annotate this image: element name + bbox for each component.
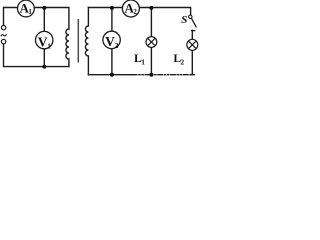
node: V1 top junction: [42, 6, 46, 10]
wire: secondary bottom dash-dot part: [133, 74, 196, 76]
wire: secondary top to right corner, down to switch: [88, 8, 190, 16]
ammeter A2: [122, 0, 139, 17]
svg-text:S: S: [181, 14, 187, 26]
svg-text:2: 2: [115, 41, 119, 50]
AC source terminal upper: [1, 25, 5, 29]
voltmeter V1: [36, 31, 53, 50]
node: V2 top junction: [110, 6, 114, 10]
wire: primary left side below terminals: [4, 44, 69, 67]
label L2: [173, 51, 184, 66]
lamp L1: [146, 37, 157, 48]
lamp L2: [187, 39, 198, 50]
wire: primary top, left corner to ammeter A1: [4, 8, 69, 30]
transformer primary winding P: [66, 29, 69, 67]
wire: secondary bottom solid part: [88, 74, 133, 76]
svg-text:1: 1: [141, 57, 145, 66]
wire: V1 branch vertical: [43, 8, 45, 67]
background: [0, 0, 200, 80]
switch S fixed contact: [191, 30, 195, 32]
svg-text:1: 1: [47, 41, 51, 50]
svg-text:2: 2: [180, 58, 184, 67]
svg-text:2: 2: [133, 8, 137, 16]
AC tilde symbol: [1, 34, 7, 36]
transformer secondary winding S: [85, 8, 88, 75]
node: V2 bottom junction: [110, 73, 114, 77]
AC source terminal lower: [1, 39, 5, 43]
node: V1 bottom junction: [42, 65, 46, 69]
junction dots: [42, 6, 153, 77]
node: L1 top junction: [149, 6, 153, 10]
wire: L1 branch vertical: [150, 8, 152, 75]
switch S pivot: [189, 15, 192, 18]
voltmeter V2: [103, 31, 120, 50]
wire: switch to lamp L2 vertical: [191, 30, 193, 74]
node: L1 bottom junction: [149, 73, 153, 77]
switch S blade: [191, 18, 196, 27]
wire: V2 branch vertical: [111, 8, 113, 75]
label L1: [134, 51, 145, 66]
svg-text:1: 1: [28, 8, 32, 16]
transformer core: [77, 19, 79, 63]
ammeter A1: [18, 0, 35, 17]
